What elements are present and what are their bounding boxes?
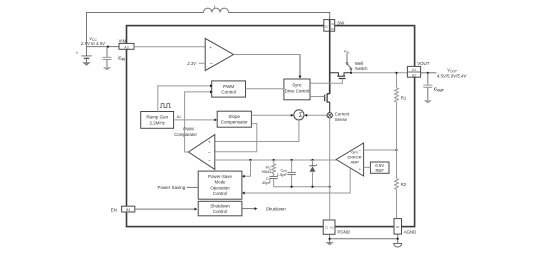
svg-text:Comparator: Comparator xyxy=(174,132,197,137)
wire REF to error amp xyxy=(364,166,371,168)
svg-text:A1: A1 xyxy=(412,68,416,72)
pin VIN A3 xyxy=(119,38,135,49)
op-amp U3 Gm error amplifier xyxy=(336,143,363,176)
svg-text:R1: R1 xyxy=(401,96,407,101)
node VOUT label xyxy=(437,68,468,79)
wire AGND to ground rail xyxy=(397,234,399,243)
pin PGND xyxy=(323,220,350,235)
switch well switch xyxy=(346,53,368,74)
resistor RC xyxy=(262,160,276,174)
wire riser to inductor xyxy=(87,13,204,47)
pin EN B3 xyxy=(111,206,135,212)
wire sync control to PMOS gate xyxy=(310,79,342,84)
capacitor COUT xyxy=(423,73,444,100)
svg-text:CIN: CIN xyxy=(118,56,125,62)
ground PGND xyxy=(325,242,333,245)
wire compensation ground rail xyxy=(274,186,330,188)
wire comp line to power save control xyxy=(244,160,251,176)
block Sync Drive Control xyxy=(284,79,310,100)
transistor Q2 power NMOS xyxy=(325,93,330,112)
battery V1 xyxy=(76,47,92,63)
wire VOUT external xyxy=(421,72,437,74)
svg-text:40pF: 40pF xyxy=(262,180,272,185)
svg-text:−: − xyxy=(208,160,211,165)
svg-text:AMP: AMP xyxy=(351,159,360,164)
wire SW net (drain path) xyxy=(329,20,331,94)
svg-text:Slope: Slope xyxy=(229,114,241,119)
svg-text:D1: D1 xyxy=(331,27,335,31)
svg-text:2.5V to 4.5V: 2.5V to 4.5V xyxy=(80,41,106,46)
ground Cout xyxy=(424,100,432,103)
wire VIN to comparator xyxy=(134,46,205,48)
wire sync control to NMOS gate xyxy=(310,96,325,98)
svg-text:Power Saving: Power Saving xyxy=(158,185,186,190)
block PWM Control xyxy=(212,81,246,97)
svg-text:B2: B2 xyxy=(396,225,400,229)
svg-text:Power-Save: Power-Save xyxy=(208,174,232,179)
wire error amp output line xyxy=(215,159,336,161)
resistor R2 xyxy=(395,150,407,219)
svg-text:VOUT: VOUT xyxy=(417,61,430,66)
svg-text:PGND: PGND xyxy=(337,230,350,235)
wire FB node to error amp xyxy=(364,149,397,151)
svg-text:REF: REF xyxy=(376,168,385,173)
svg-text:Switch: Switch xyxy=(355,66,368,71)
ground AGND (signal) xyxy=(394,243,402,247)
node junction Cin tap xyxy=(107,46,109,48)
wire summer to PWM comparator plus input xyxy=(215,120,299,142)
wire shutdown signal out xyxy=(242,206,286,211)
svg-text:Control: Control xyxy=(213,209,227,214)
svg-text:C2: C2 xyxy=(325,225,329,229)
wire battery node to VIN pin xyxy=(87,46,120,48)
capacitor CIN xyxy=(103,47,126,67)
svg-text:4.5V/5.0V/5.4V: 4.5V/5.0V/5.4V xyxy=(437,74,468,79)
wire EN to shutdown control xyxy=(135,208,196,210)
svg-text:B1: B1 xyxy=(325,24,329,28)
svg-text:A2: A2 xyxy=(412,73,416,77)
svg-text:Operation: Operation xyxy=(210,185,230,190)
svg-text:D2: D2 xyxy=(330,225,334,229)
svg-text:EN: EN xyxy=(111,207,117,212)
wire slope compensator to PWM comparator minus input xyxy=(215,124,257,152)
svg-text:Shutdown: Shutdown xyxy=(210,204,230,209)
pin VOUT A1 A2 xyxy=(407,61,429,77)
op-amp U1 UVLO comparator xyxy=(205,38,233,70)
block Power-Save Mode Operation Control xyxy=(198,171,242,199)
capacitor CP2 xyxy=(277,160,296,187)
wire current sense to summer xyxy=(306,114,327,116)
svg-text:R2: R2 xyxy=(401,182,407,187)
node VCC label xyxy=(80,36,106,46)
svg-text:C1: C1 xyxy=(331,22,335,26)
ground battery xyxy=(82,62,90,66)
svg-text:2.3V: 2.3V xyxy=(186,61,197,66)
summing node xyxy=(294,110,304,120)
wire inductor to SW pin xyxy=(229,13,330,21)
op-amp U2 PWM comparator xyxy=(174,127,215,170)
svg-text:Shutdown: Shutdown xyxy=(266,206,287,211)
svg-text:Control: Control xyxy=(213,191,227,196)
wire ground rail xyxy=(330,238,398,240)
diode D1 clamp xyxy=(309,160,317,187)
clock waveform glyph xyxy=(160,104,171,108)
wire PWM control to sync control xyxy=(246,88,284,90)
node 2.3V reference label xyxy=(186,61,205,66)
block Slope Compensator xyxy=(217,111,251,127)
svg-text:+: + xyxy=(208,140,211,145)
svg-text:A1: A1 xyxy=(177,115,181,119)
svg-text:COUT: COUT xyxy=(434,87,444,93)
pin SW xyxy=(324,20,345,32)
svg-text:+: + xyxy=(76,50,79,55)
svg-text:1.5pF: 1.5pF xyxy=(277,172,288,177)
svg-text:PWM: PWM xyxy=(223,84,234,89)
wire VOUT divider xyxy=(396,73,398,88)
inductor L xyxy=(204,4,229,12)
svg-text:Sense: Sense xyxy=(335,117,348,122)
capacitor CC xyxy=(262,173,278,186)
block 0.5V REF xyxy=(370,162,389,173)
wire PWM comparator out to PWM control xyxy=(185,92,211,152)
svg-text:VIN: VIN xyxy=(119,38,126,43)
svg-text:2.2MHz: 2.2MHz xyxy=(149,120,165,125)
svg-text:−: − xyxy=(210,61,213,67)
wire ramp gen to slope compensator xyxy=(174,119,216,121)
resistor R1 xyxy=(395,88,407,150)
wire PGND to ground rail xyxy=(329,234,331,242)
wire ramp gen to PWM control xyxy=(158,86,210,112)
svg-text:Σ: Σ xyxy=(299,113,303,119)
wire comparator out to sync control xyxy=(234,54,301,56)
wire slope compensator to summer xyxy=(251,114,292,116)
current sense element xyxy=(327,112,350,122)
ground Cin xyxy=(103,67,111,70)
svg-text:B3: B3 xyxy=(126,208,130,212)
svg-text:SW: SW xyxy=(337,21,345,26)
wire error amp bias to power save control xyxy=(244,168,351,193)
svg-text:PWM: PWM xyxy=(183,127,194,132)
pin AGND xyxy=(394,219,416,235)
IC boundary xyxy=(127,26,415,227)
svg-text:Drive Control: Drive Control xyxy=(285,89,310,94)
svg-text:+: + xyxy=(209,46,212,51)
node junction Cout tap xyxy=(427,72,429,74)
block Shutdown Control xyxy=(198,201,242,216)
svg-text:AGND: AGND xyxy=(404,230,417,235)
svg-text:Compensator: Compensator xyxy=(221,120,249,125)
svg-text:Sync: Sync xyxy=(292,83,301,88)
svg-text:−: − xyxy=(208,151,211,156)
svg-text:90kΩ: 90kΩ xyxy=(262,169,271,174)
svg-text:L: L xyxy=(214,4,217,10)
svg-text:−: − xyxy=(359,148,362,153)
block Ramp Gen 2.2MHz xyxy=(141,112,174,129)
svg-text:Control: Control xyxy=(221,90,236,95)
svg-text:Ramp Gen: Ramp Gen xyxy=(146,114,168,119)
wire NMOS source to PGND xyxy=(329,118,331,220)
svg-text:Mode: Mode xyxy=(215,180,227,185)
wire VOUT internal xyxy=(351,72,408,74)
svg-text:A3: A3 xyxy=(124,46,128,50)
node Power Saving input xyxy=(158,185,199,190)
transistor Q1 synchronous PMOS xyxy=(330,73,351,79)
